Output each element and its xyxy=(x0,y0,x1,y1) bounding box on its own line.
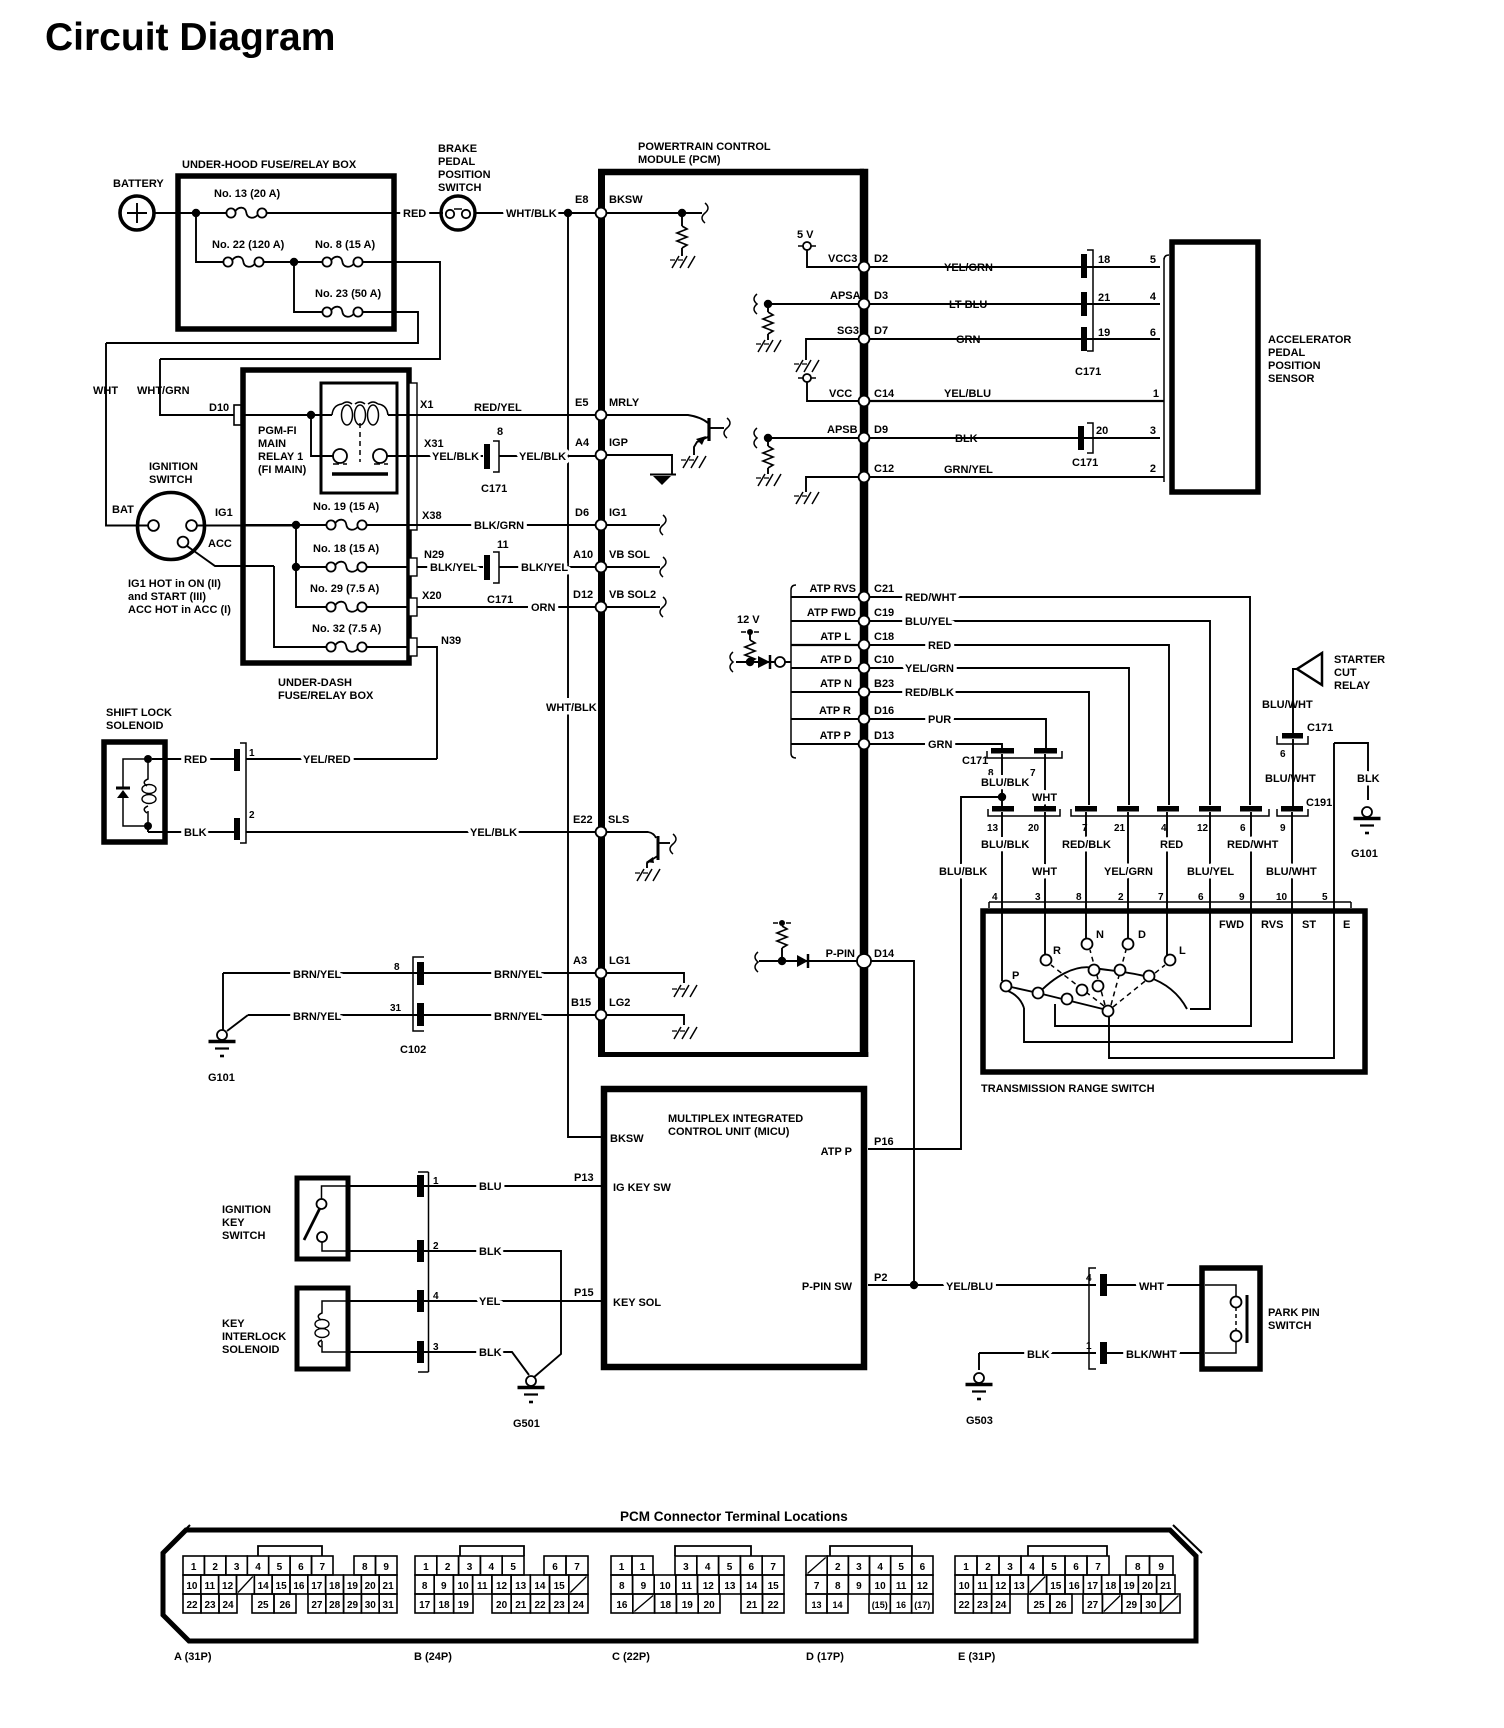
svg-text:INTERLOCK: INTERLOCK xyxy=(222,1331,286,1343)
svg-text:21: 21 xyxy=(383,1581,395,1592)
svg-text:1: 1 xyxy=(619,1562,625,1573)
TRS FWD wire xyxy=(1190,908,1210,1009)
TRS contact D xyxy=(1123,908,1147,950)
svg-text:1: 1 xyxy=(423,1562,429,1573)
svg-text:WHT/BLK: WHT/BLK xyxy=(506,208,557,220)
svg-text:5: 5 xyxy=(510,1562,516,1573)
svg-text:BLK: BLK xyxy=(479,1347,502,1359)
svg-text:D2: D2 xyxy=(874,253,888,265)
svg-text:LG1: LG1 xyxy=(609,955,630,967)
svg-text:ACC: ACC xyxy=(208,538,232,550)
svg-text:BRN/YEL: BRN/YEL xyxy=(494,969,543,981)
svg-text:12: 12 xyxy=(496,1581,508,1592)
svg-text:BLK/WHT: BLK/WHT xyxy=(1126,1349,1177,1361)
svg-text:R: R xyxy=(1053,945,1061,957)
svg-text:6: 6 xyxy=(920,1562,926,1573)
wire BLU/BLK C171-8 down to C191-13 xyxy=(981,754,1029,806)
svg-text:SOLENOID: SOLENOID xyxy=(106,720,164,732)
svg-text:15: 15 xyxy=(554,1581,566,1592)
svg-text:UNDER-DASH: UNDER-DASH xyxy=(278,677,352,689)
svg-text:C171: C171 xyxy=(487,594,513,606)
svg-text:BLK: BLK xyxy=(1357,773,1380,785)
svg-text:A (31P): A (31P) xyxy=(174,1651,212,1663)
svg-text:SWITCH: SWITCH xyxy=(149,474,192,486)
svg-text:5: 5 xyxy=(898,1562,904,1573)
svg-text:ATP N: ATP N xyxy=(820,678,852,690)
svg-text:6: 6 xyxy=(749,1562,755,1573)
svg-text:WHT: WHT xyxy=(1032,866,1057,878)
svg-text:D14: D14 xyxy=(874,948,895,960)
wire GRN D13 right then down to C171 pin8 xyxy=(870,739,1002,751)
PCM terminal C21 ATP RVS xyxy=(791,583,894,602)
park pin switch box xyxy=(1202,1268,1320,1369)
solenoid interior: diode + coil xyxy=(116,755,156,830)
svg-text:21: 21 xyxy=(1114,823,1126,834)
svg-text:No. 19 (15 A): No. 19 (15 A) xyxy=(313,501,380,513)
svg-text:D (17P): D (17P) xyxy=(806,1651,844,1663)
fuse No.13 (20A) xyxy=(214,188,281,218)
fuse No.23 (50A) xyxy=(315,288,382,317)
svg-text:SOLENOID: SOLENOID xyxy=(222,1344,280,1356)
svg-text:2: 2 xyxy=(1150,463,1156,475)
svg-text:11: 11 xyxy=(681,1581,692,1592)
5V supply symbol xyxy=(797,229,858,267)
accelerator pedal position sensor box xyxy=(1172,242,1351,492)
svg-text:YEL/GRN: YEL/GRN xyxy=(905,663,954,675)
svg-text:P: P xyxy=(1012,970,1019,982)
svg-text:1: 1 xyxy=(191,1562,197,1573)
wire battery to fuse box xyxy=(154,212,227,214)
svg-text:15: 15 xyxy=(1050,1581,1062,1592)
svg-text:2: 2 xyxy=(249,810,255,821)
wires C191 down to TRS pins xyxy=(981,812,1317,908)
svg-text:IG KEY SW: IG KEY SW xyxy=(613,1182,671,1194)
wire PUR D16 right then down to C171 pin7 xyxy=(870,714,1046,748)
svg-text:E: E xyxy=(1343,919,1350,931)
svg-text:29: 29 xyxy=(1126,1600,1138,1611)
svg-text:PUR: PUR xyxy=(928,714,951,726)
wire WHT C171-7 down to C191-20 xyxy=(1032,754,1057,806)
wire YEL/RED from N39 to pin1 xyxy=(246,754,437,766)
svg-text:BRN/YEL: BRN/YEL xyxy=(293,969,342,981)
svg-text:22: 22 xyxy=(534,1600,546,1611)
terminal N39 xyxy=(409,638,417,656)
svg-text:10: 10 xyxy=(458,1581,470,1592)
svg-text:11: 11 xyxy=(205,1581,216,1592)
wire YEL/BLU C14 to sensor pin1 xyxy=(870,388,1164,401)
svg-text:MULTIPLEX INTEGRATED: MULTIPLEX INTEGRATED xyxy=(668,1113,803,1125)
svg-text:YEL/BLK: YEL/BLK xyxy=(519,451,566,463)
svg-text:POSITION: POSITION xyxy=(1268,360,1321,372)
wire RED C18 right then down xyxy=(870,640,1169,805)
PCM terminal E5 MRLY xyxy=(575,397,708,423)
svg-text:4: 4 xyxy=(877,1562,883,1573)
svg-text:20: 20 xyxy=(1096,425,1108,437)
TRS contact P xyxy=(1001,908,1020,992)
svg-text:16: 16 xyxy=(896,1600,906,1610)
terminal X20 xyxy=(409,598,417,616)
svg-text:30: 30 xyxy=(365,1600,377,1611)
svg-text:14: 14 xyxy=(258,1581,270,1592)
svg-text:C18: C18 xyxy=(874,631,894,643)
svg-text:PEDAL: PEDAL xyxy=(438,156,476,168)
svg-text:BLK: BLK xyxy=(1027,1349,1050,1361)
svg-text:4: 4 xyxy=(705,1562,711,1573)
svg-text:24: 24 xyxy=(222,1600,234,1611)
svg-text:17: 17 xyxy=(419,1600,431,1611)
wire switch to E8 xyxy=(475,212,599,214)
svg-text:BKSW: BKSW xyxy=(610,1133,644,1145)
svg-text:POWERTRAIN CONTROL: POWERTRAIN CONTROL xyxy=(638,141,771,153)
svg-text:X1: X1 xyxy=(420,399,433,411)
ignition switch xyxy=(112,461,233,616)
svg-text:D6: D6 xyxy=(575,507,589,519)
svg-text:5: 5 xyxy=(727,1562,733,1573)
svg-text:9: 9 xyxy=(641,1581,647,1592)
svg-text:2: 2 xyxy=(445,1562,451,1573)
svg-text:12: 12 xyxy=(917,1581,929,1592)
svg-text:L: L xyxy=(1179,945,1186,957)
PCM terminal C10 ATP D xyxy=(791,654,894,673)
MICU terminal P2 P-PIN SW xyxy=(802,1272,888,1293)
PCM terminal A4 IGP xyxy=(575,437,676,485)
TRS contact L xyxy=(1165,908,1187,966)
svg-text:22: 22 xyxy=(959,1600,971,1611)
label N39 + wire down to YEL/RED xyxy=(417,635,461,759)
svg-text:BATTERY: BATTERY xyxy=(113,178,164,190)
PCM terminal B15 LG2 xyxy=(571,997,697,1039)
svg-text:CUT: CUT xyxy=(1334,667,1357,679)
wire BLK to G101 (right) xyxy=(1334,743,1381,860)
key interlock solenoid box xyxy=(222,1288,348,1369)
svg-text:VB SOL: VB SOL xyxy=(609,549,650,561)
svg-text:ST: ST xyxy=(1302,919,1316,931)
svg-text:21: 21 xyxy=(515,1600,527,1611)
TRS ST wire xyxy=(1024,908,1292,1042)
wire BRN/YEL to B15 xyxy=(424,1011,599,1023)
under-dash fuse/relay box xyxy=(243,370,409,702)
svg-text:19: 19 xyxy=(1098,327,1110,339)
svg-text:3: 3 xyxy=(1007,1562,1013,1573)
fuse No.32 (7.5A) xyxy=(274,566,409,652)
svg-text:No. 13 (20 A): No. 13 (20 A) xyxy=(214,188,281,200)
svg-text:7: 7 xyxy=(320,1562,326,1573)
svg-text:8: 8 xyxy=(394,962,400,973)
svg-text:ACC HOT in ACC (I): ACC HOT in ACC (I) xyxy=(128,604,231,616)
svg-text:CONTROL UNIT (MICU): CONTROL UNIT (MICU) xyxy=(668,1126,790,1138)
svg-text:12: 12 xyxy=(1197,823,1209,834)
svg-text:P-PIN: P-PIN xyxy=(826,948,855,960)
connector E (31P) xyxy=(1028,1546,1107,1556)
svg-text:TRANSMISSION RANGE SWITCH: TRANSMISSION RANGE SWITCH xyxy=(981,1083,1155,1095)
relay contacts xyxy=(311,415,420,474)
svg-text:30: 30 xyxy=(1145,1600,1157,1611)
node after fuse22 xyxy=(290,258,298,266)
svg-text:D: D xyxy=(1138,929,1146,941)
svg-text:(15): (15) xyxy=(872,1600,888,1610)
svg-text:5: 5 xyxy=(1150,254,1156,266)
wire BLK to connector pin2 xyxy=(148,810,255,840)
PCM terminal D9 APSB xyxy=(754,424,888,486)
svg-text:BLK/YEL: BLK/YEL xyxy=(430,562,477,574)
svg-text:SWITCH: SWITCH xyxy=(1268,1320,1311,1332)
park pin connector pin4 xyxy=(1086,1273,1200,1296)
svg-text:18: 18 xyxy=(1098,254,1110,266)
svg-text:20: 20 xyxy=(365,1581,377,1592)
battery B1 xyxy=(113,178,164,230)
svg-text:P-PIN SW: P-PIN SW xyxy=(802,1281,853,1293)
svg-text:G101: G101 xyxy=(208,1072,235,1084)
svg-text:WHT: WHT xyxy=(1139,1281,1164,1293)
wire BLK to G503 xyxy=(966,1349,1097,1427)
svg-text:P16: P16 xyxy=(874,1136,894,1148)
svg-text:No. 29 (7.5 A): No. 29 (7.5 A) xyxy=(310,583,380,595)
label X38 + BLK/GRN to D6 xyxy=(417,510,599,532)
svg-text:N39: N39 xyxy=(441,635,461,647)
PCM terminal A10 VB SOL xyxy=(573,549,666,577)
svg-text:B15: B15 xyxy=(571,997,591,1009)
svg-text:STARTER: STARTER xyxy=(1334,654,1385,666)
label X31 + YEL/BLK + C171 pin8 xyxy=(420,426,599,495)
svg-text:3: 3 xyxy=(856,1562,862,1573)
connector C (22P) xyxy=(675,1546,751,1556)
svg-text:7: 7 xyxy=(574,1562,580,1573)
svg-text:BLU/YEL: BLU/YEL xyxy=(1187,866,1234,878)
PCM terminal D12 VB SOL2 xyxy=(573,589,666,617)
fuse No.19 (15A) xyxy=(241,501,420,530)
svg-text:PEDAL: PEDAL xyxy=(1268,347,1306,359)
TRS contact N xyxy=(1082,908,1105,950)
PCM terminal D3 APSA xyxy=(754,290,888,352)
wire BLU to P13 xyxy=(348,1175,604,1197)
MICU terminal P15 KEY SOL xyxy=(574,1287,661,1309)
svg-text:12: 12 xyxy=(703,1581,715,1592)
svg-text:20: 20 xyxy=(1142,1581,1154,1592)
powertrain control module (PCM) box xyxy=(598,141,868,1057)
svg-text:13: 13 xyxy=(987,823,999,834)
wire junction down to fuse22 xyxy=(196,213,223,262)
svg-text:G501: G501 xyxy=(513,1418,540,1430)
svg-text:11: 11 xyxy=(896,1581,907,1592)
multiplex integrated control unit (MICU) box xyxy=(604,1089,864,1367)
svg-text:(FI MAIN): (FI MAIN) xyxy=(258,464,307,476)
PCM terminal B23 ATP N xyxy=(791,678,894,697)
svg-text:A4: A4 xyxy=(575,437,590,449)
svg-text:BLU/BLK: BLU/BLK xyxy=(981,777,1029,789)
transistor Q (SLS driver) xyxy=(607,832,676,881)
svg-text:21: 21 xyxy=(746,1600,758,1611)
svg-text:9: 9 xyxy=(1280,823,1286,834)
svg-text:4: 4 xyxy=(1150,291,1157,303)
wire YEL/GRN C10 right then down xyxy=(870,663,1129,805)
terminal N29 xyxy=(409,558,417,576)
svg-text:5: 5 xyxy=(277,1562,283,1573)
connector B (24P) xyxy=(460,1546,524,1556)
starter cut relay xyxy=(1262,653,1385,733)
svg-text:4: 4 xyxy=(1029,1562,1035,1573)
TRS pin numbers xyxy=(992,892,1328,903)
svg-text:SHIFT LOCK: SHIFT LOCK xyxy=(106,707,172,719)
svg-text:8: 8 xyxy=(835,1581,841,1592)
park pin connector pin1 xyxy=(1086,1341,1200,1364)
svg-text:RED/WHT: RED/WHT xyxy=(905,592,957,604)
svg-text:27: 27 xyxy=(311,1600,323,1611)
svg-text:31: 31 xyxy=(383,1600,395,1611)
TRS contact R xyxy=(1041,908,1062,966)
MICU terminal P13 IG KEY SW xyxy=(574,1172,671,1194)
svg-text:13: 13 xyxy=(811,1600,821,1610)
svg-text:18: 18 xyxy=(660,1600,672,1611)
svg-text:IG1: IG1 xyxy=(609,507,627,519)
svg-text:5: 5 xyxy=(1051,1562,1057,1573)
svg-text:YEL/BLK: YEL/BLK xyxy=(432,451,479,463)
svg-text:13: 13 xyxy=(1014,1581,1026,1592)
svg-text:9: 9 xyxy=(1158,1562,1164,1573)
svg-text:APSA: APSA xyxy=(830,290,861,302)
wire BLU/YEL C19 right then down xyxy=(870,616,1210,805)
svg-text:RED: RED xyxy=(403,208,426,220)
svg-text:C171: C171 xyxy=(1307,722,1333,734)
label X1 + wire RED/YEL to E5 xyxy=(417,399,599,415)
svg-text:BRN/YEL: BRN/YEL xyxy=(494,1011,543,1023)
svg-text:G503: G503 xyxy=(966,1415,993,1427)
svg-text:IGP: IGP xyxy=(609,437,628,449)
svg-text:ACCELERATOR: ACCELERATOR xyxy=(1268,334,1351,346)
svg-text:D12: D12 xyxy=(573,589,593,601)
PCM terminal D6 IG1 xyxy=(575,507,666,535)
PCM terminal C12 xyxy=(794,463,894,504)
svg-text:2: 2 xyxy=(835,1562,841,1573)
svg-text:MRLY: MRLY xyxy=(609,397,640,409)
connector C102 xyxy=(390,957,426,1056)
fuse No.8 (15A) xyxy=(263,239,375,267)
svg-text:YEL/RED: YEL/RED xyxy=(303,754,351,766)
svg-text:MODULE (PCM): MODULE (PCM) xyxy=(638,154,721,166)
svg-text:KEY SOL: KEY SOL xyxy=(613,1297,661,1309)
svg-text:3: 3 xyxy=(467,1562,473,1573)
wire BRN/YEL row2 to C102 pin31 xyxy=(248,1011,417,1023)
svg-text:SWITCH: SWITCH xyxy=(438,182,481,194)
svg-text:GRN: GRN xyxy=(928,739,953,751)
svg-text:IGNITION: IGNITION xyxy=(149,461,198,473)
svg-text:10: 10 xyxy=(660,1581,672,1592)
svg-text:No. 18 (15 A): No. 18 (15 A) xyxy=(313,543,380,555)
svg-text:14: 14 xyxy=(832,1600,842,1610)
svg-text:16: 16 xyxy=(293,1581,305,1592)
relay coil xyxy=(241,402,420,425)
svg-text:2: 2 xyxy=(985,1562,991,1573)
svg-text:13: 13 xyxy=(515,1581,527,1592)
wire BLK D9 to C171 pin20 xyxy=(870,423,1160,469)
svg-text:11: 11 xyxy=(477,1581,488,1592)
svg-text:15: 15 xyxy=(276,1581,288,1592)
svg-text:G101: G101 xyxy=(1351,848,1378,860)
svg-text:P13: P13 xyxy=(574,1172,594,1184)
svg-text:6: 6 xyxy=(1240,823,1246,834)
TRS column labels xyxy=(1219,919,1350,931)
svg-text:RED: RED xyxy=(184,754,207,766)
svg-text:C171: C171 xyxy=(1075,366,1101,378)
shift lock connector bracket xyxy=(240,743,246,843)
svg-text:9: 9 xyxy=(856,1581,862,1592)
svg-text:N: N xyxy=(1096,929,1104,941)
svg-text:A10: A10 xyxy=(573,549,593,561)
svg-text:1: 1 xyxy=(640,1562,646,1573)
PGM-FI main relay 1 box xyxy=(258,383,397,493)
svg-text:23: 23 xyxy=(204,1600,216,1611)
svg-text:and START (III): and START (III) xyxy=(128,591,206,603)
svg-text:BRAKE: BRAKE xyxy=(438,143,477,155)
svg-text:SG3: SG3 xyxy=(837,325,859,337)
node WHT/BLK xyxy=(564,209,572,217)
svg-text:4: 4 xyxy=(489,1562,495,1573)
svg-text:MAIN: MAIN xyxy=(258,438,286,450)
PCM terminal C14 VCC xyxy=(829,388,895,406)
svg-text:RVS: RVS xyxy=(1261,919,1283,931)
svg-text:31: 31 xyxy=(390,1003,402,1014)
svg-text:8: 8 xyxy=(1135,1562,1141,1573)
svg-text:16: 16 xyxy=(616,1600,628,1611)
ground G501 xyxy=(513,1376,545,1430)
svg-text:7: 7 xyxy=(814,1581,820,1592)
svg-text:IG1: IG1 xyxy=(215,507,233,519)
svg-text:17: 17 xyxy=(1087,1581,1099,1592)
PCM terminal C18 ATP L xyxy=(791,631,894,650)
svg-text:RELAY 1: RELAY 1 xyxy=(258,451,303,463)
PCM terminal D7 SG3 xyxy=(794,325,888,372)
node relay coil in xyxy=(307,411,315,419)
PCM terminal D14 P-PIN + interior xyxy=(755,920,895,972)
wire ACC diagonal to fuse32 feed xyxy=(187,546,274,566)
svg-text:X31: X31 xyxy=(424,438,444,450)
svg-text:BLU/BLK: BLU/BLK xyxy=(981,839,1029,851)
svg-text:RELAY: RELAY xyxy=(1334,680,1371,692)
svg-text:BLU/WHT: BLU/WHT xyxy=(1262,699,1313,711)
svg-text:26: 26 xyxy=(279,1600,291,1611)
svg-text:KEY: KEY xyxy=(222,1217,245,1229)
connector C191 bar row xyxy=(987,797,1332,834)
svg-text:C171: C171 xyxy=(962,755,988,767)
fuse No.22 (120A) xyxy=(212,239,285,267)
svg-text:BLK: BLK xyxy=(955,433,978,445)
svg-text:18: 18 xyxy=(1105,1581,1117,1592)
svg-text:KEY: KEY xyxy=(222,1318,245,1330)
wire fuse13 to RED xyxy=(266,212,443,214)
svg-text:17: 17 xyxy=(311,1581,323,1592)
PCM terminal E8 BKSW xyxy=(575,194,708,268)
svg-text:P15: P15 xyxy=(574,1287,594,1299)
svg-text:14: 14 xyxy=(746,1581,758,1592)
wire BRN/YEL to A3 xyxy=(424,969,599,981)
svg-text:E8: E8 xyxy=(575,194,588,206)
svg-text:X38: X38 xyxy=(422,510,442,522)
sensor connector face line xyxy=(1164,255,1169,482)
svg-text:10: 10 xyxy=(186,1581,198,1592)
wire P2 YEL/BLU to park pin connector xyxy=(868,1281,1096,1293)
5V supply symbol (VCC) xyxy=(798,374,858,401)
svg-text:16: 16 xyxy=(1069,1581,1081,1592)
svg-text:FUSE/RELAY BOX: FUSE/RELAY BOX xyxy=(278,690,374,702)
svg-text:PCM Connector Terminal Locatio: PCM Connector Terminal Locations xyxy=(620,1509,848,1524)
svg-text:18: 18 xyxy=(329,1581,341,1592)
svg-text:19: 19 xyxy=(1124,1581,1136,1592)
wire fuse22 node down to fuse23 xyxy=(294,262,322,312)
svg-text:UNDER-HOOD FUSE/RELAY BOX: UNDER-HOOD FUSE/RELAY BOX xyxy=(182,159,357,171)
shift lock solenoid xyxy=(104,707,172,842)
wire fuse23 out right, down, left (to WHT) xyxy=(106,312,418,343)
svg-text:B (24P): B (24P) xyxy=(414,1651,452,1663)
svg-text:BLK/GRN: BLK/GRN xyxy=(474,520,524,532)
